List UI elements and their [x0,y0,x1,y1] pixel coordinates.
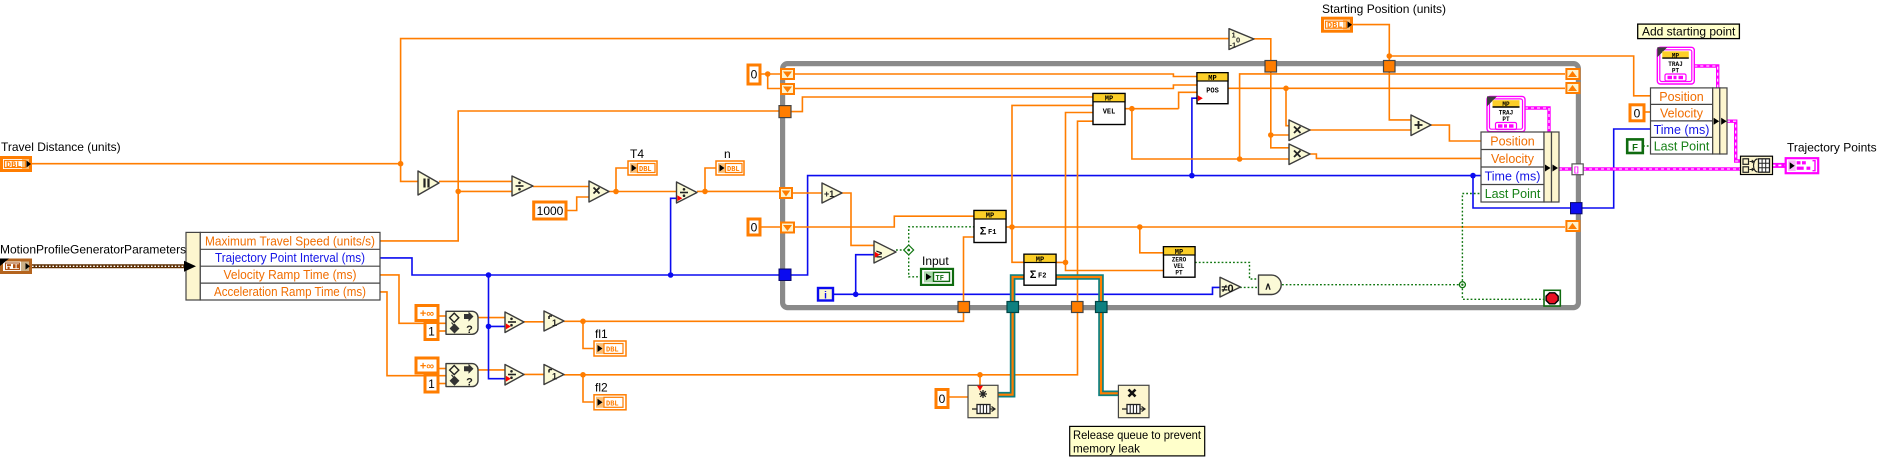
bundle by name outer [1651,88,1728,154]
wire: queue striped SigmaF2 to right tunnel [1056,277,1101,307]
junction: green diamond [904,245,914,255]
wire: InRange1 out to Divide3 [478,317,505,319]
svg-text:?: ? [466,376,473,388]
wire: pink TrajPt1 to inner bundle [1525,108,1549,132]
wire: pink outer bundle out to Build Array [1727,121,1741,161]
constant 0 shiftreg top [748,65,760,84]
arrow into unbundle [184,261,196,272]
shift register left 4 [780,222,795,234]
svg-text:1000: 1000 [537,204,564,218]
svg-text:F1: F1 [988,229,996,237]
svg-text:fl2: fl2 [595,381,608,395]
svg-text:MP: MP [1105,96,1113,104]
constant 1000 [534,202,566,219]
svg-text:+1: +1 [824,189,834,199]
stop terminal [1544,290,1560,306]
svg-text:MP: MP [1208,75,1216,83]
wire: Acceleration Ramp Time to InRange2 [380,292,446,376]
svg-text:MotionProfileGeneratorParamete: MotionProfileGeneratorParameters [0,243,186,257]
wire: Divide2 out to loop shift register [697,191,786,193]
indicator fl2 [594,395,626,410]
wire: Velocity Ramp Time to InRange1 [380,275,446,323]
svg-text:Velocity Ramp Time (ms): Velocity Ramp Time (ms) [224,268,357,282]
wire: Abs output to Divide1 [439,180,512,182]
wire: Divide1 out to Multiply [533,186,589,188]
svg-text:0: 0 [939,392,946,406]
wire: POS output to right shift register 2 [1228,87,1565,89]
wire: branch down to ZeroVelPt input1 [1140,227,1164,253]
wire: blue rail inside loop [791,176,1481,275]
svg-text:1: 1 [428,377,435,391]
svg-text:1: 1 [428,325,435,339]
junction dots orange [398,161,404,167]
wire: queue striped Obtain to loop tunnel [998,307,1013,395]
round to +inf 2 [544,365,564,385]
comment: release queue note [1070,426,1205,456]
svg-text:DBL: DBL [639,166,652,174]
i iteration terminal [818,288,833,301]
svg-text:VEL: VEL [1103,109,1116,117]
wire: comparison to SigmaF1 input2 [909,227,974,250]
tunnel: fl2 bottom [1072,302,1084,313]
wire: GreaterEqual output dotted [896,249,909,251]
svg-text:Last Point: Last Point [1485,187,1541,201]
wire: branch up to n indicator [705,168,716,191]
coercion dots red [506,323,511,329]
cluster constant TRAJ PT 1 [1487,96,1525,131]
svg-text:0: 0 [1634,106,1641,120]
constant +inf 1 [416,306,438,321]
wire: shift register2 rail to POS input2 [795,85,1197,89]
svg-text:Starting Position (units): Starting Position (units) [1322,2,1446,16]
svg-text:DBL: DBL [1327,21,1342,31]
wire: SigmaF2 out down to ZeroVelPt input2 [1066,262,1164,270]
control MotionProfileGeneratorParameters cluster [0,259,32,275]
wire: junction up to bundle Last Point [1462,194,1481,285]
abs node [418,171,439,195]
svg-text:MP: MP [1036,256,1044,264]
multiply x2 node [1289,144,1310,165]
svg-text:MP: MP [1502,101,1510,108]
wire: Trajectory Point Interval blue rail [380,258,779,275]
svg-text:Input: Input [922,254,949,268]
not equal to 0 node [1220,277,1241,297]
svg-text:Time (ms): Time (ms) [1485,169,1541,183]
indicator Trajectory Points [1786,158,1819,173]
svg-text:PT: PT [1175,270,1183,277]
svg-text:?: ? [466,324,473,336]
svg-text:0: 0 [751,221,758,235]
wire: pink array out to Trajectory Points [1772,163,1785,168]
tunnel: sign top [1265,61,1277,73]
svg-text:1: 1 [552,372,557,382]
shift register right 2 [1565,82,1580,94]
shift register left 1 [780,68,795,80]
multiply node [589,181,609,202]
svg-text:+∞: +∞ [420,308,434,320]
wire: 0 const to outer bundle Velocity [1645,111,1651,113]
tunnel: blue time out [1571,203,1583,214]
wire: SigmaF2 out to VEL input3 [1056,113,1093,263]
wire: fl1 net to loop tunnel [564,307,964,321]
wire: Sign net to Multiply-x1 bottom and x2 top [1271,134,1289,136]
cluster constant TRAJ PT 2 [1657,47,1694,84]
wire: pink inner bundle out through tunnel to Build Array [1559,167,1741,170]
tunnel: queue out bottom [1007,302,1019,313]
indicator fl1 [594,341,626,356]
svg-text:Position: Position [1490,134,1535,148]
svg-text:Σ: Σ [1030,269,1037,281]
wire: i branch to GreaterEqual [856,255,874,295]
tunnel: max travel speed [779,106,791,118]
wire: 1000 constant to Multiply bottom [566,197,589,211]
wire: Travel Distance to junction [32,163,401,165]
svg-text:n: n [724,147,731,161]
svg-text:memory leak: memory leak [1073,441,1141,455]
constant 1 b [425,375,438,392]
wire: fl2 branch to indicator [583,375,594,402]
tunnel: pink bundle output [1572,164,1583,175]
wire: 0 const to stacked shift registers [760,73,780,75]
subVI SigmaF2 [1024,254,1056,285]
wire: blue outside loop to outer bundle Time [1582,129,1651,208]
wire: Divide3 out to RoundUp1 [524,321,544,323]
release queue node [1118,385,1149,417]
wire: comparison to Input indicator [909,250,921,277]
shift register left 3 (n) [779,187,793,199]
svg-text:Release queue to prevent: Release queue to prevent [1073,428,1202,442]
subVI ZERO VEL PT [1164,247,1196,278]
indicator n [716,161,744,175]
comment Add starting point [1638,24,1740,38]
while loop border [783,64,1579,308]
svg-text:MP: MP [1672,52,1680,59]
in range and coerce 1 [446,311,478,336]
wire: Sign output into loop [1254,39,1271,135]
tunnel: queue release bottom [1096,302,1108,313]
wire: x2 output to bundle Velocity [1310,154,1481,158]
wire: fl2 branch down to Obtain Queue [979,375,981,386]
wire: cluster brown wire [32,264,186,268]
and node [1259,275,1282,294]
wire: VEL output to POS input3 [1125,108,1179,110]
wire: junction down to Abs input [401,164,418,182]
shift register left 2 [780,83,795,95]
sign node [1229,29,1254,50]
svg-text:Add starting point: Add starting point [1642,24,1736,38]
svg-text:Trajectory Points: Trajectory Points [1787,141,1877,155]
wire: pink TrajPt2 to outer bundle [1694,66,1717,88]
tunnel: blue interval [779,269,791,281]
svg-text:fl1: fl1 [595,327,608,341]
subVI VEL [1093,94,1125,125]
wire: junction up to Sign rail [401,39,1229,164]
svg-text:Trajectory Point Interval (ms): Trajectory Point Interval (ms) [215,251,365,265]
svg-text:∧: ∧ [1264,281,1271,292]
svg-text:F2: F2 [1038,272,1046,280]
svg-text:Travel Distance (units): Travel Distance (units) [1,140,121,154]
wire: +1 input from tunnel [791,192,822,194]
svg-text:≠0: ≠0 [1222,283,1234,295]
svg-text:TF: TF [936,275,944,283]
subVI POS [1197,73,1228,104]
bundle by name inner [1481,132,1559,202]
constant 0 velocity [1630,105,1644,121]
svg-text:1: 1 [552,318,557,328]
svg-text:[]: [] [1574,167,1579,174]
constant +inf 2 [416,358,438,373]
divide3 node [505,312,524,333]
svg-text:DBL: DBL [727,166,740,174]
multiply x1 node [1289,120,1310,141]
wire: i terminal rail [833,287,1220,294]
add node [1411,115,1431,136]
constant 1 a [425,323,438,340]
wire: NotEqual0 output to And [1240,286,1259,288]
control Travel Distance DBL [0,156,32,172]
build array node [1741,156,1773,174]
round to +inf 1 [544,311,564,331]
wire: junction to stop terminal [1462,285,1544,300]
wire: +inf2 to InRange2 top [438,368,446,370]
svg-text:F: F [1632,142,1638,153]
wire: branch up to T4 indicator [616,168,628,192]
wire: SigmaF1 out up to VEL input2 [1012,105,1093,227]
svg-text:DBL: DBL [606,400,619,408]
indicator Input TF [921,269,953,285]
wire: +1 out to GreaterEqual top [842,193,874,245]
wire: fl2 tunnel riser to VEL input4 [1078,121,1094,303]
wire: POS out branch to Multiply-x1 top [1286,88,1289,125]
wire: const 1a to InRange1 bottom [438,330,446,332]
wire: Add output to bundle Position [1431,125,1481,141]
wire: blue branch to loop tunnel right [1473,176,1571,208]
svg-text:0: 0 [1236,36,1240,45]
divide4 node [505,365,524,386]
wire: blue riser to POS [1192,98,1197,175]
tunnel: fl1 bottom [958,302,970,313]
wire: n shift register rail to SigmaF1 [795,216,974,227]
control Starting Position DBL [1321,17,1353,33]
wire: Max speed rail inside loop to VEL input1 [791,97,1093,112]
increment +1 node [822,183,842,203]
wire: blue riser to Divide2 [671,198,677,275]
wire: ZeroVelPt output to And [1195,262,1259,279]
svg-text:Position: Position [1659,90,1704,104]
svg-text:Last Point: Last Point [1654,139,1710,153]
obtain queue node [968,385,998,417]
wire: x1 output to Add bottom [1310,129,1411,131]
junction dots blue [486,272,492,278]
wire: blue riser to Divide3/Divide4 [489,275,506,379]
wire: Starting Position into loop [1389,56,1411,120]
greater or equal node [874,241,896,263]
wire: InRange2 out to Divide4 [478,369,505,371]
svg-text:Acceleration Ramp Time (ms): Acceleration Ramp Time (ms) [214,285,366,299]
divide1 node [512,176,533,196]
wire: F constant to outer bundle Last Point [1643,145,1651,147]
junction: green circle [1459,282,1465,288]
svg-text:DBL: DBL [606,347,619,355]
svg-text:+∞: +∞ [420,361,434,373]
svg-text:-1: -1 [1230,41,1237,50]
wire: fl1 branch to indicator [583,321,594,348]
svg-text:0: 0 [751,68,758,82]
svg-text:POS: POS [1206,88,1219,96]
wire: 0 to Obtain Queue [948,396,968,398]
wire: 0 const to shift register 4 [760,226,780,228]
wire: queue striped tunnel to Release Queue [1101,307,1118,393]
tunnel: starting position top [1384,61,1396,73]
wire: queue striped inside loop to SigmaF2 [1013,277,1024,303]
constant F false [1627,139,1643,153]
indicator T4 [628,161,657,175]
shift register right 3 [1565,220,1580,232]
constant 0 queue size [936,390,948,408]
wire: SigmaF1 bottom input from tunnel [964,237,975,303]
wire: Multiply out to Divide2 [609,191,677,193]
wire: const 1b to InRange2 bottom [438,383,446,385]
svg-text:DBL: DBL [6,160,21,170]
wire: +inf1 to InRange1 top [438,315,446,317]
svg-text:T4: T4 [630,147,644,161]
wire: VEL output down and to right shift register 1 [1132,109,1289,159]
svg-text:Time (ms): Time (ms) [1654,123,1710,137]
wire: SigmaF1 out down to SigmaF2 [1012,227,1024,262]
wire: And output to junction [1282,284,1462,286]
wire: fl2 net to loop tunnel and queue [564,307,1078,375]
divide2 node [677,182,698,203]
subVI SigmaF1 [974,211,1006,243]
unbundle by name node [186,232,380,300]
constant 0 shiftreg4 [748,219,760,235]
svg-text:Velocity: Velocity [1491,152,1535,166]
shift register right 1 [1565,68,1580,80]
wire: Max Travel Speed riser [380,111,779,241]
wire: SigmaF1 output net [1006,226,1565,228]
in range and coerce 2 [446,364,478,389]
svg-text:MP: MP [986,213,994,221]
wire: Divide4 out to RoundUp2 [524,373,544,375]
svg-text:Σ: Σ [980,226,987,238]
wire: shift register1 rail to POS input1 [795,74,1197,77]
svg-text:Maximum Travel Speed (units/s): Maximum Travel Speed (units/s) [205,234,375,248]
wire: Max speed branch to Divide1 bottom [458,190,512,192]
svg-text:i: i [824,290,827,301]
wire: Starting Position to outer bundle Position [1353,25,1651,96]
svg-text:Velocity: Velocity [1660,106,1704,120]
